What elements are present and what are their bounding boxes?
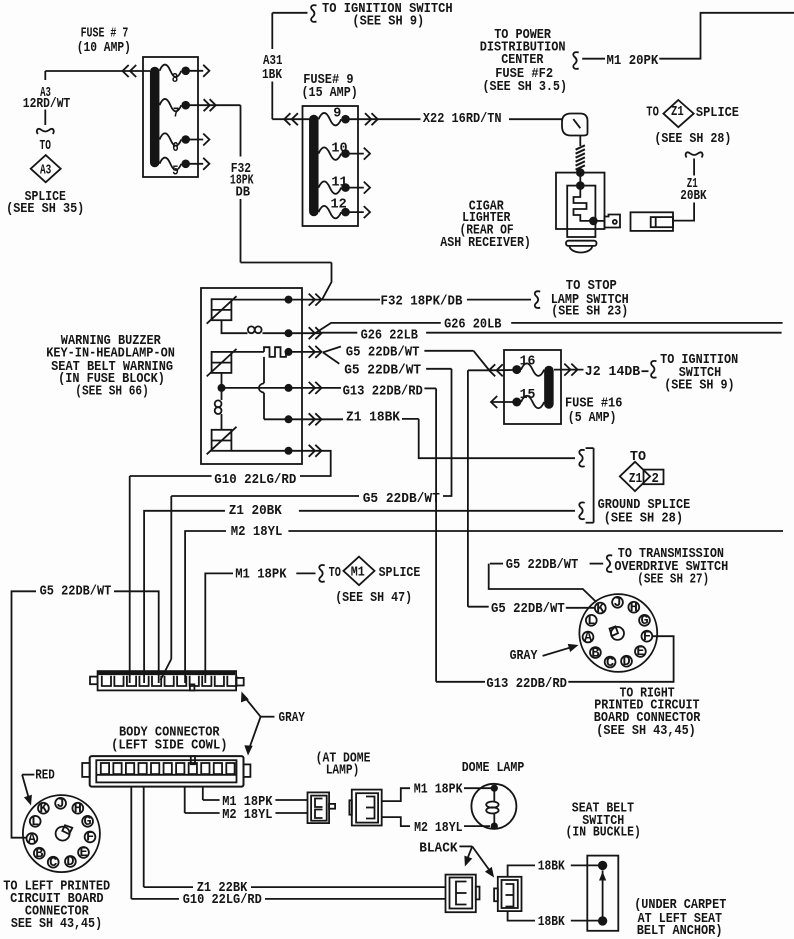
svg-text:6: 6 xyxy=(172,141,178,156)
svg-text:TO STOP: TO STOP xyxy=(566,279,617,294)
svg-text:(SEE SH 43,45): (SEE SH 43,45) xyxy=(596,724,696,739)
svg-text:A: A xyxy=(584,631,593,646)
svg-text:L: L xyxy=(587,614,595,629)
svg-text:(SEE SH 47): (SEE SH 47) xyxy=(335,591,412,606)
svg-text:SEE SH 43,45): SEE SH 43,45) xyxy=(11,917,102,932)
svg-text:X22 16RD/TN: X22 16RD/TN xyxy=(423,112,502,127)
svg-text:F32 18PK/DB: F32 18PK/DB xyxy=(381,295,463,310)
svg-text:(UNDER CARPET: (UNDER CARPET xyxy=(634,898,726,913)
svg-text:20BK: 20BK xyxy=(680,189,707,204)
svg-text:ASH RECEIVER): ASH RECEIVER) xyxy=(440,236,531,251)
svg-text:FUSE #16: FUSE #16 xyxy=(565,397,622,412)
svg-text:RED: RED xyxy=(35,769,55,784)
svg-text:BELT ANCHOR): BELT ANCHOR) xyxy=(637,924,723,939)
svg-text:18BK: 18BK xyxy=(538,915,566,930)
svg-text:(5 AMP): (5 AMP) xyxy=(568,411,617,426)
svg-text:H: H xyxy=(630,601,638,616)
svg-text:G: G xyxy=(84,815,92,830)
svg-text:LAMP): LAMP) xyxy=(326,764,360,779)
svg-text:(SEE SH 3.5): (SEE SH 3.5) xyxy=(483,80,568,95)
svg-text:TO: TO xyxy=(630,450,646,465)
svg-text:G5 22DB/WT: G5 22DB/WT xyxy=(344,363,421,378)
svg-text:D: D xyxy=(66,855,74,870)
svg-text:M2 18YL: M2 18YL xyxy=(222,808,272,823)
svg-text:(SEE SH 23): (SEE SH 23) xyxy=(551,305,628,320)
svg-text:GRAY: GRAY xyxy=(510,649,539,664)
svg-text:M2 18YL: M2 18YL xyxy=(414,821,463,836)
svg-text:BLACK: BLACK xyxy=(419,841,458,856)
svg-text:(LEFT SIDE COWL): (LEFT SIDE COWL) xyxy=(111,739,227,754)
svg-text:J2 14DB: J2 14DB xyxy=(585,365,640,380)
svg-text:GRAY: GRAY xyxy=(279,711,306,726)
svg-text:C: C xyxy=(49,856,57,871)
svg-text:G5 22DB/WT: G5 22DB/WT xyxy=(506,558,579,573)
svg-text:A3: A3 xyxy=(40,164,51,179)
svg-text:M1 18PK: M1 18PK xyxy=(414,783,464,798)
svg-text:Z1: Z1 xyxy=(671,105,684,120)
svg-text:M2 18YL: M2 18YL xyxy=(231,525,283,540)
svg-text:11: 11 xyxy=(331,176,347,191)
svg-text:SPLICE: SPLICE xyxy=(696,106,739,121)
svg-text:12RD/WT: 12RD/WT xyxy=(23,97,71,112)
svg-text:A: A xyxy=(28,832,37,847)
svg-text:10: 10 xyxy=(331,142,347,157)
svg-text:2: 2 xyxy=(652,472,659,487)
svg-text:M1 18PK: M1 18PK xyxy=(235,567,287,582)
svg-text:G: G xyxy=(640,614,648,629)
svg-text:G13 22DB/RD: G13 22DB/RD xyxy=(343,385,423,400)
svg-text:G10 22LG/RD: G10 22LG/RD xyxy=(214,473,296,488)
svg-text:F: F xyxy=(643,630,651,645)
svg-text:Z1 20BK: Z1 20BK xyxy=(229,504,283,519)
svg-text:(SEE SH 27): (SEE SH 27) xyxy=(637,573,709,588)
svg-text:5: 5 xyxy=(172,164,178,179)
svg-text:G5 22DB/WT: G5 22DB/WT xyxy=(363,492,440,507)
svg-text:G26 22LB: G26 22LB xyxy=(361,328,418,343)
svg-text:DB: DB xyxy=(236,186,251,201)
svg-text:M1: M1 xyxy=(351,565,365,580)
svg-text:L: L xyxy=(31,815,39,830)
svg-text:G5 22DB/WT: G5 22DB/WT xyxy=(346,345,420,360)
svg-text:TO: TO xyxy=(646,105,659,120)
svg-text:18BK: 18BK xyxy=(538,860,566,875)
svg-text:G10 22LG/RD: G10 22LG/RD xyxy=(183,893,262,908)
svg-text:12: 12 xyxy=(331,197,347,212)
svg-text:J: J xyxy=(613,596,621,611)
svg-text:(SEE SH 66): (SEE SH 66) xyxy=(75,384,149,399)
svg-text:(SEE SH 28): (SEE SH 28) xyxy=(654,132,731,147)
svg-text:(SEE SH 28): (SEE SH 28) xyxy=(604,511,683,526)
svg-text:E: E xyxy=(79,846,87,861)
svg-text:Z1 18BK: Z1 18BK xyxy=(346,411,401,426)
svg-text:9: 9 xyxy=(333,107,341,122)
svg-text:C: C xyxy=(606,656,614,671)
svg-text:(SEE SH 9): (SEE SH 9) xyxy=(352,15,424,30)
svg-text:J: J xyxy=(57,797,65,812)
svg-text:TO: TO xyxy=(329,566,341,581)
svg-text:E: E xyxy=(636,645,644,660)
svg-text:K: K xyxy=(596,602,605,617)
svg-text:Z1: Z1 xyxy=(629,472,643,487)
svg-text:(10 AMP): (10 AMP) xyxy=(77,41,131,56)
svg-text:G5 22DB/WT: G5 22DB/WT xyxy=(491,602,565,617)
svg-text:8: 8 xyxy=(172,72,178,87)
svg-text:TO: TO xyxy=(40,139,51,154)
svg-text:(SEE SH 9): (SEE SH 9) xyxy=(664,379,734,394)
svg-text:CENTER: CENTER xyxy=(501,53,544,68)
svg-text:G13 22DB/RD: G13 22DB/RD xyxy=(486,677,567,692)
svg-text:G26 20LB: G26 20LB xyxy=(444,318,501,333)
svg-text:FUSE # 7: FUSE # 7 xyxy=(81,26,129,41)
svg-text:H: H xyxy=(74,802,82,817)
svg-text:B: B xyxy=(591,646,599,661)
svg-text:G5 22DB/WT: G5 22DB/WT xyxy=(40,585,112,600)
svg-text:1BK: 1BK xyxy=(262,68,283,83)
svg-text:7: 7 xyxy=(173,106,179,121)
svg-text:DOME LAMP: DOME LAMP xyxy=(462,761,525,776)
svg-text:(15 AMP): (15 AMP) xyxy=(302,86,358,101)
svg-text:D: D xyxy=(622,655,630,670)
svg-text:K: K xyxy=(39,802,48,817)
svg-text:M1 20PK: M1 20PK xyxy=(607,54,660,69)
svg-text:(IN BUCKLE): (IN BUCKLE) xyxy=(566,826,641,841)
svg-text:(SEE SH 35): (SEE SH 35) xyxy=(6,202,84,217)
svg-text:A31: A31 xyxy=(263,54,283,69)
svg-text:B: B xyxy=(35,847,43,862)
svg-text:F: F xyxy=(86,831,94,846)
svg-text:SPLICE: SPLICE xyxy=(379,566,421,581)
